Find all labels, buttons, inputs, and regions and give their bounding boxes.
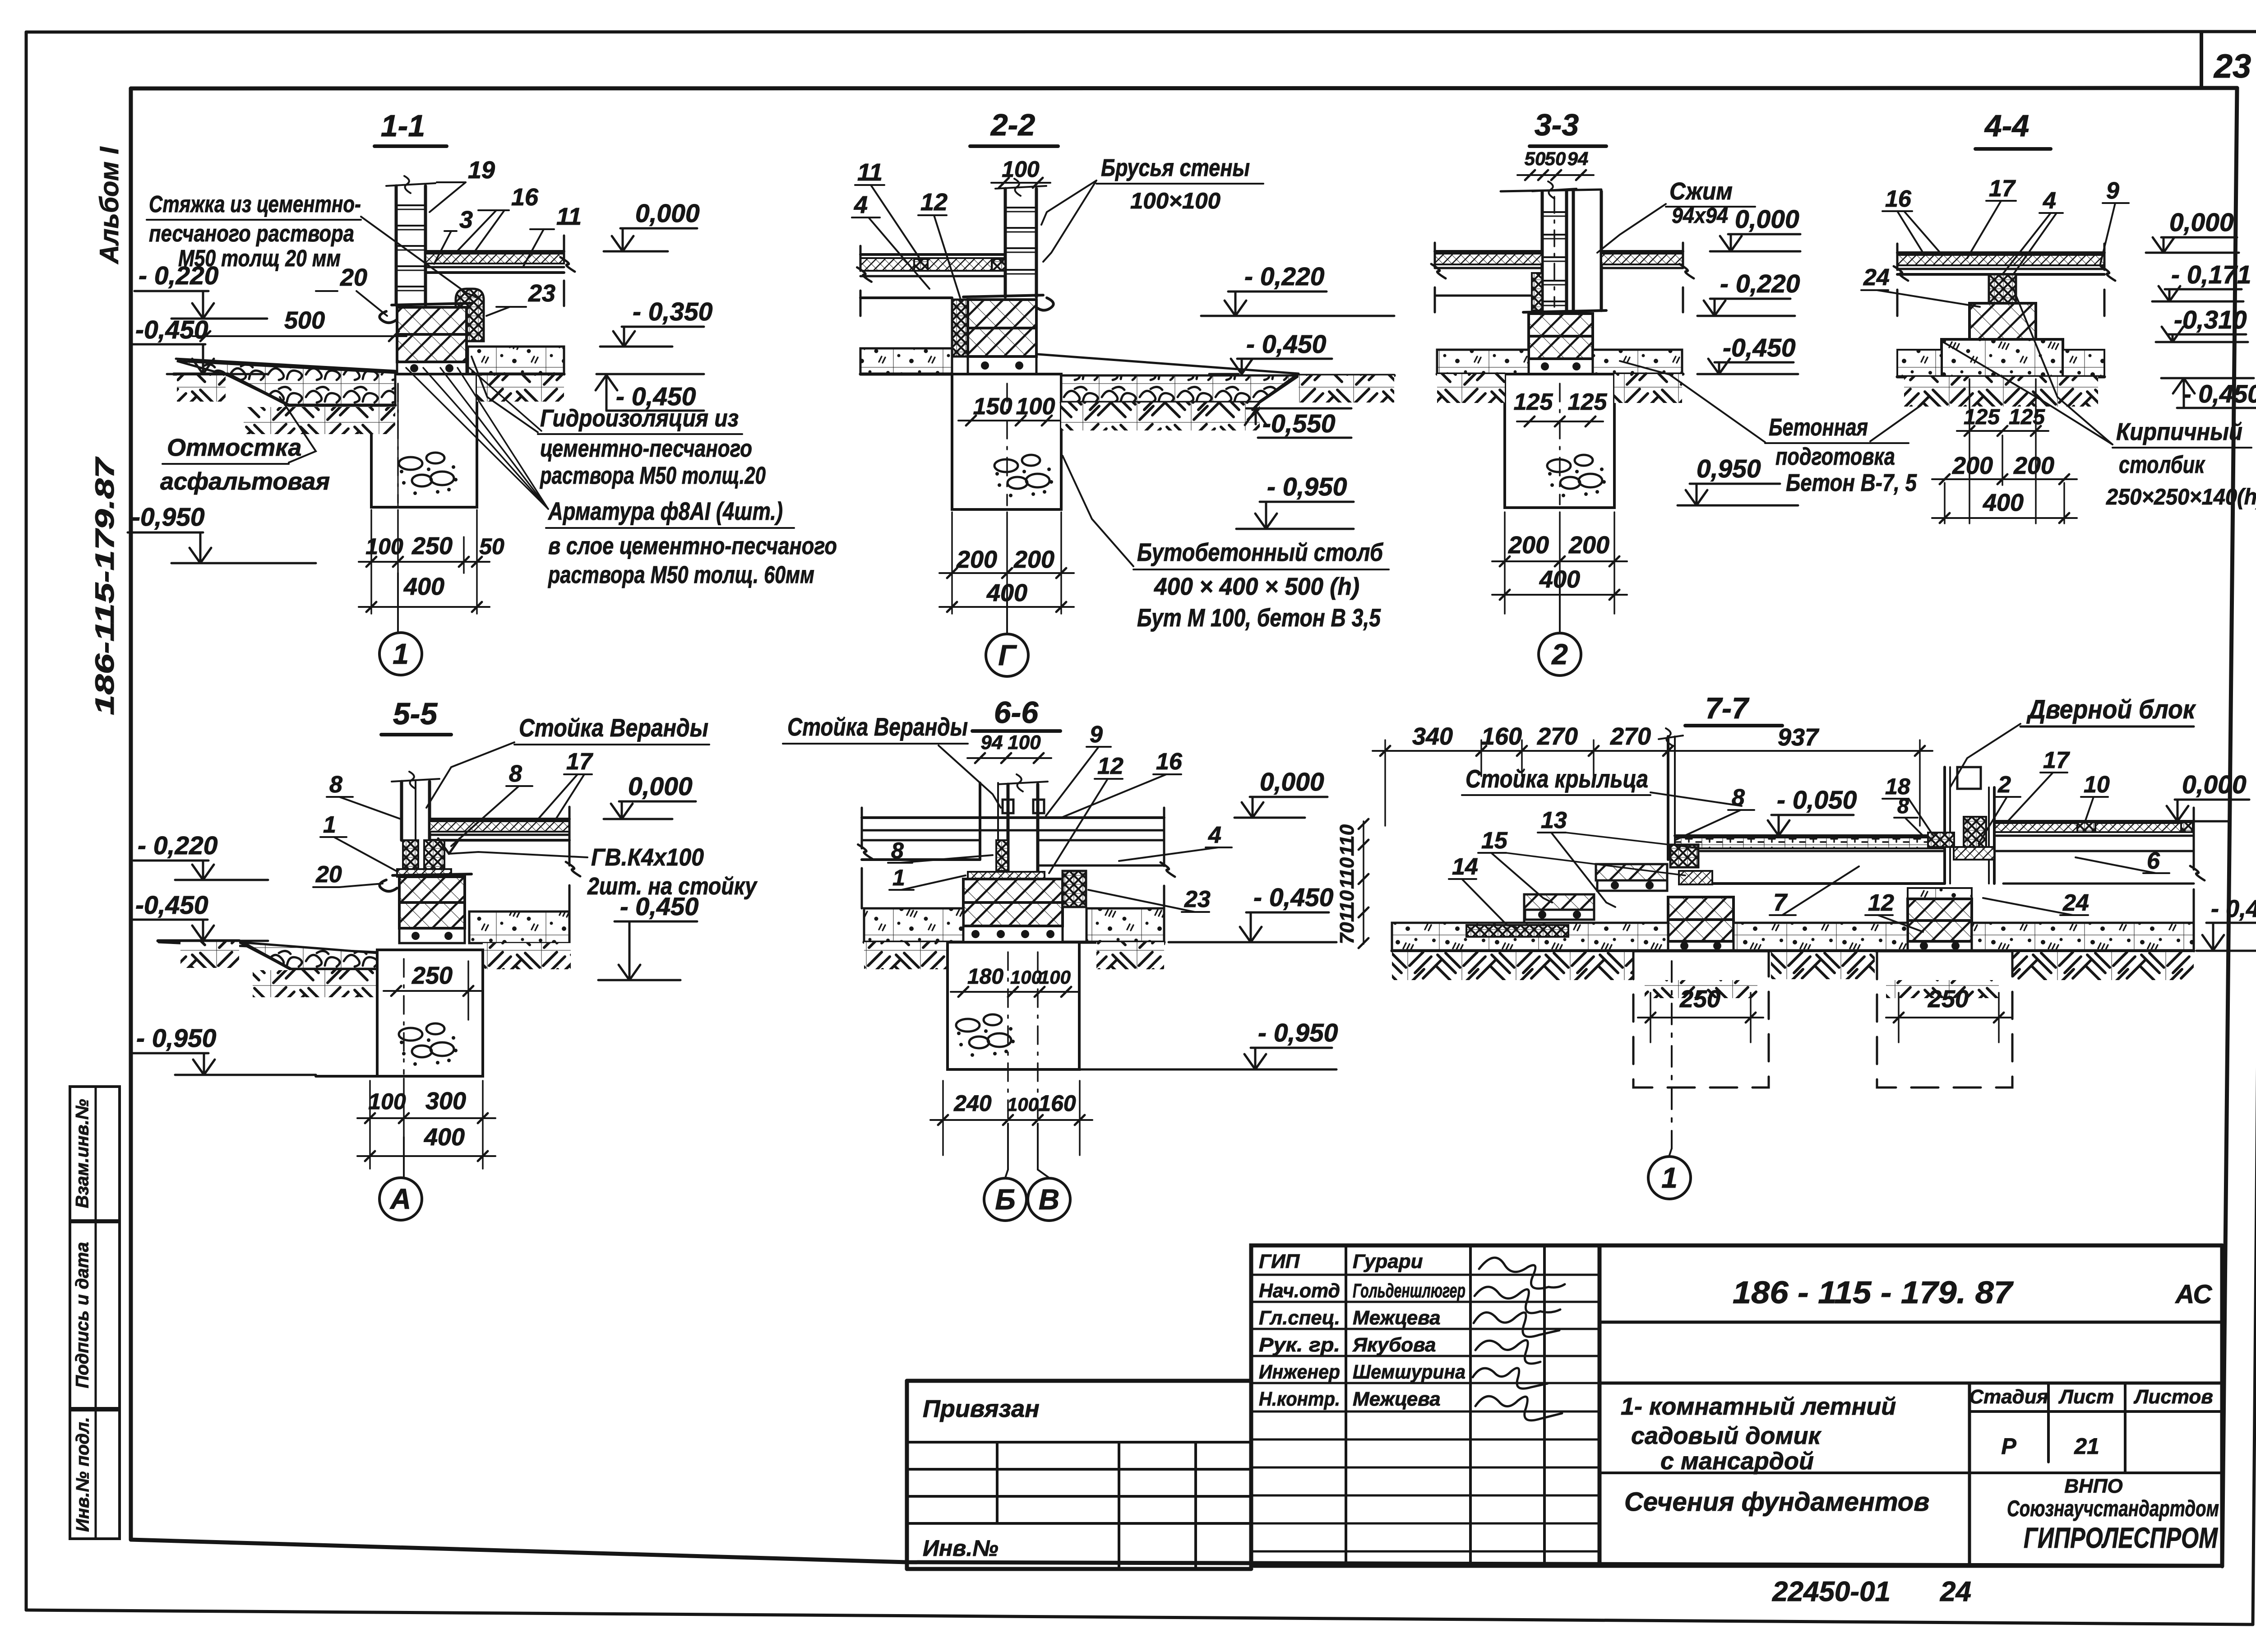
svg-text:8: 8 xyxy=(891,838,904,863)
svg-text:125: 125 xyxy=(1514,389,1553,415)
svg-text:23: 23 xyxy=(2213,47,2251,85)
svg-text:Гл.спец.: Гл.спец. xyxy=(1259,1307,1340,1329)
svg-text:-0,450: -0,450 xyxy=(135,891,208,920)
svg-text:1: 1 xyxy=(892,865,905,890)
svg-text:21: 21 xyxy=(2074,1434,2099,1459)
svg-text:4: 4 xyxy=(2043,188,2056,214)
svg-text:Брусья стены: Брусья стены xyxy=(1101,154,1250,181)
svg-text:22450-01: 22450-01 xyxy=(1772,1576,1891,1607)
svg-text:19: 19 xyxy=(468,157,495,184)
svg-text:1: 1 xyxy=(393,638,409,670)
svg-text:125: 125 xyxy=(1568,389,1608,415)
svg-text:- 0,950: - 0,950 xyxy=(1267,472,1347,501)
svg-text:Шемшурина: Шемшурина xyxy=(1353,1361,1465,1383)
svg-text:Листов: Листов xyxy=(2133,1386,2213,1408)
svg-text:12: 12 xyxy=(920,189,948,216)
svg-text:Инженер: Инженер xyxy=(1259,1361,1340,1383)
svg-text:Стадия: Стадия xyxy=(1969,1386,2048,1408)
svg-text:Г: Г xyxy=(998,639,1017,671)
svg-text:- 0,950: - 0,950 xyxy=(1258,1018,1338,1047)
svg-text:70: 70 xyxy=(1336,922,1358,944)
svg-text:песчаного раствора: песчаного раствора xyxy=(149,221,354,247)
svg-text:- 0,950: - 0,950 xyxy=(136,1024,217,1053)
svg-text:садовый домик: садовый домик xyxy=(1631,1422,1821,1449)
svg-text:100: 100 xyxy=(1039,967,1071,988)
svg-text:Гольденшлюгер: Гольденшлюгер xyxy=(1353,1280,1465,1302)
svg-text:250: 250 xyxy=(1679,986,1720,1013)
svg-text:11: 11 xyxy=(556,203,582,230)
svg-text:8: 8 xyxy=(329,772,342,798)
svg-text:500: 500 xyxy=(284,307,325,334)
svg-text:250: 250 xyxy=(411,962,453,989)
svg-text:- 0,220: - 0,220 xyxy=(139,261,219,290)
svg-text:0,000: 0,000 xyxy=(2182,770,2247,799)
svg-text:Дверной блок: Дверной блок xyxy=(2026,695,2196,724)
svg-text:ГИПРОЛЕСПРОМ: ГИПРОЛЕСПРОМ xyxy=(2024,1522,2218,1554)
svg-text:110: 110 xyxy=(1336,824,1358,856)
svg-text:Межцева: Межцева xyxy=(1353,1388,1441,1410)
svg-text:- 0,220: - 0,220 xyxy=(1720,269,1800,298)
svg-text:110: 110 xyxy=(1336,857,1358,889)
svg-text:Инв.№: Инв.№ xyxy=(923,1536,999,1561)
svg-text:14: 14 xyxy=(1452,854,1478,880)
svg-text:Нач.отд: Нач.отд xyxy=(1259,1280,1340,1302)
svg-text:24: 24 xyxy=(1863,264,1890,291)
svg-text:150: 150 xyxy=(973,393,1012,420)
svg-text:Бут М 100, бетон В 3,5: Бут М 100, бетон В 3,5 xyxy=(1137,603,1381,632)
svg-text:раствора М50 толщ. 60мм: раствора М50 толщ. 60мм xyxy=(547,561,814,588)
svg-text:2-2: 2-2 xyxy=(990,108,1035,142)
svg-text:-0,450: -0,450 xyxy=(135,315,208,344)
svg-text:8: 8 xyxy=(1897,794,1909,818)
svg-text:Альбом I: Альбом I xyxy=(95,146,124,265)
svg-text:Подпись и дата: Подпись и дата xyxy=(73,1242,92,1388)
svg-text:подготовка: подготовка xyxy=(1775,443,1895,470)
svg-text:100: 100 xyxy=(368,1089,406,1114)
svg-text:- 0,450: - 0,450 xyxy=(2211,895,2256,922)
svg-text:0,000: 0,000 xyxy=(635,199,700,228)
svg-text:Союзнаучстандартдом: Союзнаучстандартдом xyxy=(2007,1496,2219,1521)
svg-text:17: 17 xyxy=(1989,176,2016,202)
svg-text:50: 50 xyxy=(1545,148,1566,169)
svg-text:Сжим: Сжим xyxy=(1669,178,1733,205)
svg-text:94: 94 xyxy=(981,731,1003,754)
svg-text:1-1: 1-1 xyxy=(381,109,425,143)
svg-text:300: 300 xyxy=(425,1087,466,1115)
svg-text:100: 100 xyxy=(1016,393,1055,420)
svg-text:110: 110 xyxy=(1336,890,1358,922)
svg-text:937: 937 xyxy=(1778,724,1820,751)
svg-text:13: 13 xyxy=(1541,807,1567,833)
svg-text:200: 200 xyxy=(956,546,997,573)
svg-text:160: 160 xyxy=(1481,723,1522,750)
svg-text:9: 9 xyxy=(2106,178,2119,204)
svg-text:1: 1 xyxy=(323,812,336,838)
svg-text:асфальтовая: асфальтовая xyxy=(160,468,330,495)
svg-text:Бутобетонный столб: Бутобетонный столб xyxy=(1137,538,1383,566)
svg-text:0,950: 0,950 xyxy=(1697,454,1761,483)
svg-text:11: 11 xyxy=(857,159,883,186)
svg-text:0,000: 0,000 xyxy=(1260,768,1324,796)
svg-text:24: 24 xyxy=(1940,1576,1971,1607)
svg-text:- 0,450: - 0,450 xyxy=(616,382,696,411)
svg-text:АС: АС xyxy=(2175,1280,2213,1309)
svg-text:94х94: 94х94 xyxy=(1672,204,1728,228)
svg-text:Гурари: Гурари xyxy=(1353,1250,1423,1273)
svg-text:-0,310: -0,310 xyxy=(2174,305,2247,334)
svg-text:10: 10 xyxy=(2084,772,2110,798)
svg-text:180: 180 xyxy=(967,965,1003,989)
svg-text:в слое цементно-песчаного: в слое цементно-песчаного xyxy=(548,532,837,560)
svg-text:15: 15 xyxy=(1481,828,1508,854)
svg-text:Стойка Веранды: Стойка Веранды xyxy=(787,713,968,741)
svg-text:400: 400 xyxy=(1983,489,2024,516)
svg-text:- 0,171: - 0,171 xyxy=(2171,260,2251,289)
svg-text:100: 100 xyxy=(1008,731,1041,754)
svg-text:200: 200 xyxy=(1952,452,1993,479)
svg-text:0,000: 0,000 xyxy=(628,772,693,801)
svg-text:250×250×140(h): 250×250×140(h) xyxy=(2106,484,2256,509)
svg-text:400: 400 xyxy=(424,1124,465,1151)
svg-text:186-115-179.87: 186-115-179.87 xyxy=(90,456,120,715)
svg-text:ГВ.К4х100: ГВ.К4х100 xyxy=(591,844,704,871)
svg-text:16: 16 xyxy=(511,184,539,211)
svg-text:270: 270 xyxy=(1537,723,1578,750)
svg-text:100: 100 xyxy=(1010,967,1042,988)
svg-text:2: 2 xyxy=(1997,772,2011,798)
svg-text:200: 200 xyxy=(1568,532,1609,559)
svg-text:Бетон В-7, 5: Бетон В-7, 5 xyxy=(1786,469,1917,496)
svg-text:Отмостка: Отмостка xyxy=(167,434,301,461)
svg-text:340: 340 xyxy=(1412,723,1453,750)
svg-text:400 × 400 × 500 (h): 400 × 400 × 500 (h) xyxy=(1154,573,1359,600)
svg-text:- 0,220: - 0,220 xyxy=(138,831,218,860)
svg-text:ГИП: ГИП xyxy=(1259,1250,1300,1273)
svg-text:100×100: 100×100 xyxy=(1130,188,1220,213)
svg-text:с мансардой: с мансардой xyxy=(1660,1448,1814,1475)
svg-text:0,000: 0,000 xyxy=(2169,208,2234,237)
svg-text:100: 100 xyxy=(1007,1094,1039,1115)
svg-text:Сечения фундаментов: Сечения фундаментов xyxy=(1624,1487,1929,1517)
svg-text:20: 20 xyxy=(315,861,342,888)
svg-text:Инв.№ подл.: Инв.№ подл. xyxy=(73,1417,93,1532)
svg-text:23: 23 xyxy=(1184,886,1211,912)
svg-text:200: 200 xyxy=(1013,546,1054,573)
svg-text:4: 4 xyxy=(854,191,868,218)
svg-text:9: 9 xyxy=(1090,722,1103,748)
svg-text:Рук. гр.: Рук. гр. xyxy=(1259,1334,1340,1356)
svg-text:4: 4 xyxy=(1208,822,1221,848)
svg-text:94: 94 xyxy=(1567,148,1589,169)
svg-text:Б: Б xyxy=(995,1183,1015,1216)
svg-text:ВНПО: ВНПО xyxy=(2064,1475,2122,1497)
svg-text:6-6: 6-6 xyxy=(994,695,1039,730)
svg-text:200: 200 xyxy=(1508,532,1549,559)
svg-text:20: 20 xyxy=(340,264,367,291)
svg-text:Кирпичный: Кирпичный xyxy=(2116,418,2242,445)
svg-text:250: 250 xyxy=(411,532,453,560)
svg-text:3-3: 3-3 xyxy=(1535,108,1579,142)
svg-text:17: 17 xyxy=(566,749,593,775)
svg-text:400: 400 xyxy=(403,573,444,600)
svg-text:2: 2 xyxy=(1551,638,1568,671)
svg-text:3: 3 xyxy=(459,206,473,233)
svg-text:5-5: 5-5 xyxy=(393,697,438,731)
svg-text:раствора М50 толщ.20: раствора М50 толщ.20 xyxy=(539,462,766,489)
svg-text:А: А xyxy=(389,1183,411,1215)
svg-text:-0,550: -0,550 xyxy=(1262,409,1336,438)
svg-text:- 0,450: - 0,450 xyxy=(1246,330,1327,359)
svg-text:Привязан: Привязан xyxy=(923,1395,1040,1422)
svg-text:- 0,350: - 0,350 xyxy=(633,297,713,326)
svg-text:16: 16 xyxy=(1156,749,1183,775)
svg-text:7-7: 7-7 xyxy=(1705,691,1750,725)
svg-text:Р: Р xyxy=(2001,1434,2016,1459)
svg-text:1: 1 xyxy=(1661,1161,1678,1194)
svg-text:-0,950: -0,950 xyxy=(132,503,205,532)
svg-text:50: 50 xyxy=(479,534,504,559)
svg-text:23: 23 xyxy=(528,280,555,307)
svg-text:0,000: 0,000 xyxy=(1735,205,1799,234)
svg-text:Лист: Лист xyxy=(2058,1386,2114,1408)
svg-text:Взам.инв.№: Взам.инв.№ xyxy=(73,1099,92,1208)
svg-text:50: 50 xyxy=(1525,148,1546,169)
svg-text:Стяжка из цементно-: Стяжка из цементно- xyxy=(149,191,361,217)
svg-text:- 0,050: - 0,050 xyxy=(1777,786,1857,814)
svg-text:цементно-песчаного: цементно-песчаного xyxy=(540,435,752,462)
svg-text:Межцева: Межцева xyxy=(1353,1307,1441,1329)
svg-text:Стойка Веранды: Стойка Веранды xyxy=(519,713,708,742)
svg-text:1- комнатный летний: 1- комнатный летний xyxy=(1621,1393,1896,1420)
svg-text:12: 12 xyxy=(1868,890,1894,916)
svg-text:- 0,450: - 0,450 xyxy=(1253,883,1334,912)
svg-text:186 - 115 - 179. 87: 186 - 115 - 179. 87 xyxy=(1733,1275,2014,1310)
svg-text:2шт. на стойку: 2шт. на стойку xyxy=(587,873,758,900)
svg-text:240: 240 xyxy=(953,1091,992,1116)
svg-text:16: 16 xyxy=(1885,186,1912,212)
svg-text:Стойка крыльца: Стойка крыльца xyxy=(1465,764,1648,793)
svg-text:- 0,220: - 0,220 xyxy=(1244,262,1325,291)
svg-text:Н.контр.: Н.контр. xyxy=(1259,1388,1340,1410)
svg-text:270: 270 xyxy=(1610,723,1651,750)
svg-text:12: 12 xyxy=(1097,753,1123,779)
svg-text:8: 8 xyxy=(509,761,522,787)
svg-text:столбик: столбик xyxy=(2119,451,2205,478)
svg-text:8: 8 xyxy=(1732,785,1745,811)
svg-text:4-4: 4-4 xyxy=(1984,109,2029,143)
svg-text:Якубова: Якубова xyxy=(1352,1334,1436,1356)
svg-text:Арматура ф8АI (4шт.): Арматура ф8АI (4шт.) xyxy=(547,497,783,525)
svg-text:-0,450: -0,450 xyxy=(1723,333,1796,362)
svg-text:17: 17 xyxy=(2043,747,2070,773)
svg-text:Бетонная: Бетонная xyxy=(1769,414,1868,441)
svg-text:250: 250 xyxy=(1928,986,1969,1013)
svg-text:В: В xyxy=(1039,1183,1059,1216)
svg-text:200: 200 xyxy=(2013,452,2054,479)
svg-text:24: 24 xyxy=(2062,890,2089,916)
svg-text:6: 6 xyxy=(2147,848,2160,874)
svg-text:160: 160 xyxy=(1038,1091,1076,1116)
